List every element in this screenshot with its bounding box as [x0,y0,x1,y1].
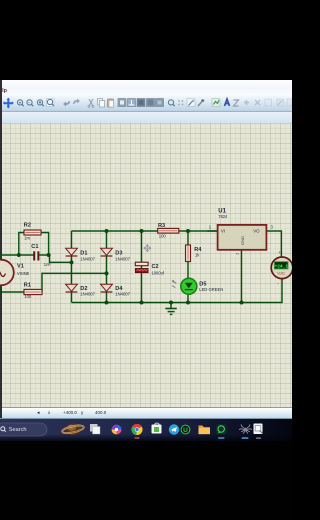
svg-text:1N4007: 1N4007 [80,291,95,296]
svg-text:1N4007: 1N4007 [80,256,95,261]
svg-text:Volts: Volts [277,271,285,275]
svg-text:100: 100 [159,233,167,238]
svg-text:1k: 1k [195,253,200,258]
svg-text:3: 3 [271,224,274,229]
svg-text:VI: VI [221,229,225,234]
svg-text:1N4007: 1N4007 [115,256,130,261]
svg-text:R2: R2 [24,223,31,229]
svg-text:7824: 7824 [218,214,228,219]
svg-text:C1: C1 [31,244,38,250]
svg-text:VO: VO [253,229,260,234]
svg-text:1000uf: 1000uf [152,270,165,275]
svg-text:2: 2 [236,253,240,255]
svg-text:VSINE: VSINE [17,271,30,276]
svg-text:R1: R1 [24,282,31,288]
svg-text:+: + [278,250,281,255]
svg-text:1nF: 1nF [44,262,52,267]
svg-text:GND: GND [240,236,245,245]
svg-text:-: - [277,281,279,287]
svg-text:1: 1 [209,224,212,229]
svg-text:C2: C2 [152,264,159,270]
svg-text:1N4007: 1N4007 [115,291,130,296]
svg-text:+24.1: +24.1 [274,263,288,269]
svg-text:R3: R3 [158,223,165,229]
svg-text:100: 100 [24,294,32,299]
svg-text:V1: V1 [17,263,24,269]
svg-text:LED-GREEN: LED-GREEN [199,287,223,292]
svg-text:1m: 1m [24,236,30,241]
